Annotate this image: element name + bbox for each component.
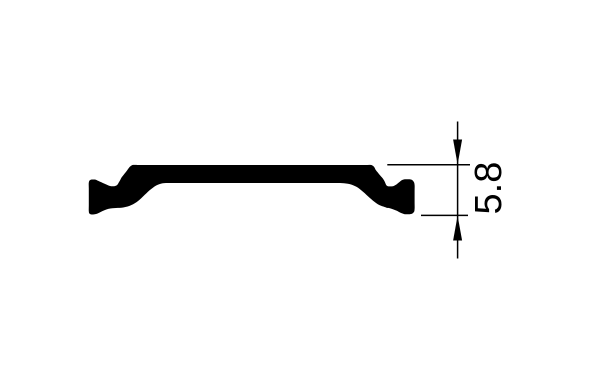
gasket profile cross-section: [89, 165, 415, 215]
extension line top: [387, 164, 470, 166]
dimension arrow bottom: [453, 216, 462, 241]
svg-text:5.8: 5.8: [468, 162, 510, 215]
dimension arrow top: [453, 140, 462, 165]
dimension line: [457, 122, 459, 259]
extension line bottom: [421, 214, 468, 216]
